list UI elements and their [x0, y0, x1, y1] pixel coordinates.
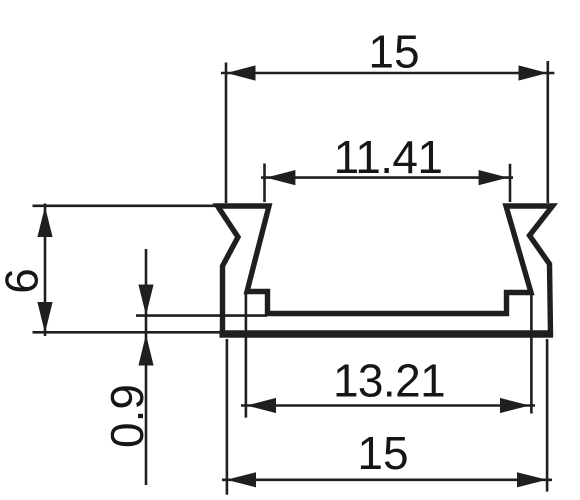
dim 6 ext line bottom — [33, 331, 220, 334]
dim 6 line — [44, 204, 47, 337]
dim 11.41 arrow left — [266, 170, 295, 185]
dim 6 arrow up — [37, 207, 52, 238]
dim top15 arrow left — [227, 65, 256, 80]
dim top15 ext line right — [546, 61, 549, 203]
svg-text:0.9: 0.9 — [101, 384, 153, 448]
dim 11.41 arrow right — [479, 170, 508, 185]
dim 6 ext line top — [33, 205, 219, 208]
dim 6 arrow down — [37, 302, 52, 333]
dim 0.9 arrow up — [138, 335, 153, 366]
dim top15 line — [221, 72, 554, 75]
dim bottom15 arrow right — [517, 472, 547, 487]
label 6 — [0, 268, 48, 294]
dim bottom15 arrow left — [227, 472, 257, 487]
dim 0.9 tick line — [136, 314, 267, 317]
dim 11.41 ext line left — [263, 164, 266, 203]
dim 0.9 line — [145, 249, 148, 485]
dim bottom15 line — [222, 478, 552, 481]
dim 13.21 ext line left — [245, 292, 248, 418]
profile outline — [218, 206, 553, 334]
dim bottom15 ext line left — [226, 339, 229, 495]
svg-text:11.41: 11.41 — [334, 131, 443, 183]
svg-text:15: 15 — [357, 427, 408, 479]
dim 13.21 arrow left — [247, 398, 277, 413]
dim 11.41 ext line right — [509, 164, 512, 202]
dim 13.21 ext line right — [530, 291, 533, 414]
profile bottom — [220, 330, 554, 337]
svg-text:6: 6 — [0, 268, 48, 294]
label 0.9 — [101, 384, 153, 448]
dim top15 ext line left — [225, 63, 228, 204]
svg-text:13.21: 13.21 — [333, 355, 445, 407]
dim top15 arrow right — [519, 65, 548, 80]
dim 13.21 arrow right — [500, 398, 530, 413]
dim 11.41 line — [261, 176, 513, 179]
dim 13.21 line — [241, 404, 535, 407]
dim 0.9 arrow down — [138, 285, 153, 316]
dim bottom15 ext line right — [546, 339, 549, 492]
svg-text:15: 15 — [368, 26, 419, 78]
